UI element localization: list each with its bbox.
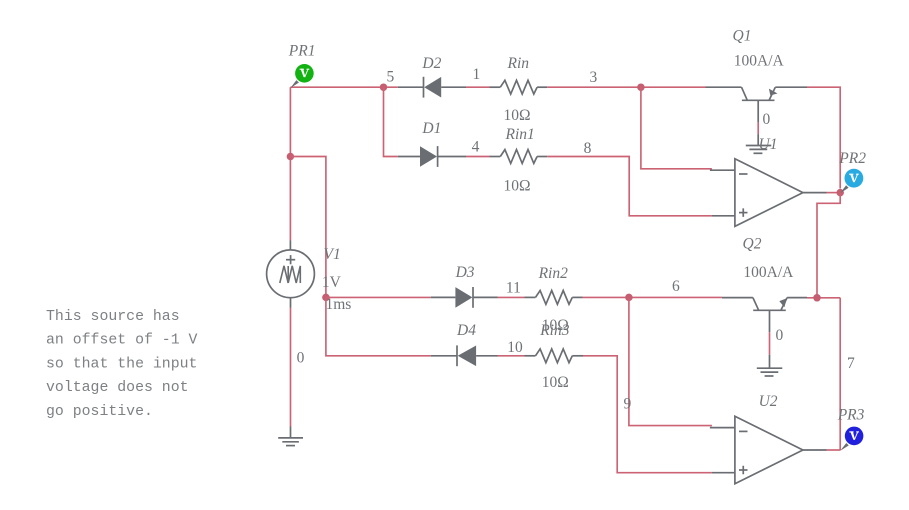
wire node 3	[547, 86, 705, 88]
svg-text:10: 10	[507, 339, 523, 356]
probe PR1	[288, 42, 316, 88]
svg-text:go positive.: go positive.	[46, 404, 153, 420]
op-amp U2	[710, 393, 827, 484]
diode D1	[398, 120, 466, 167]
svg-text:1ms: 1ms	[326, 296, 352, 313]
wire node3 to U1 minus	[641, 87, 712, 169]
svg-text:3: 3	[590, 69, 598, 86]
voltage source V1	[267, 241, 352, 314]
junction at x=290 row B	[287, 153, 295, 161]
wire Q1 collector to PR2 node	[807, 87, 840, 188]
svg-text:11: 11	[506, 280, 521, 297]
wire U2 output	[827, 449, 841, 451]
resistor Rin1	[490, 126, 548, 195]
svg-text:Q1: Q1	[733, 27, 752, 44]
wire node 11	[498, 296, 525, 298]
wire node 4	[466, 156, 490, 158]
junction node 6	[625, 294, 633, 302]
op-amp U1	[710, 136, 827, 226]
wire top rail node 5	[290, 86, 397, 88]
svg-text:9: 9	[624, 396, 632, 413]
resistor Rin	[490, 55, 548, 124]
svg-text:1V: 1V	[322, 274, 342, 291]
svg-text:0: 0	[776, 327, 784, 344]
wire junction to D3	[326, 296, 431, 298]
diode D3	[431, 264, 498, 308]
svg-text:D3: D3	[455, 264, 475, 281]
svg-text:U1: U1	[759, 136, 778, 153]
wire node 1	[466, 86, 490, 88]
svg-text:100A/A: 100A/A	[743, 264, 794, 281]
junction node 3	[637, 83, 645, 91]
annotation text	[46, 309, 198, 420]
ground below Q1	[746, 134, 772, 153]
wire node 7 vertical	[839, 298, 841, 451]
svg-text:10Ω: 10Ω	[504, 107, 531, 124]
svg-text:6: 6	[672, 278, 680, 295]
CCCS Q1	[706, 27, 808, 122]
svg-text:1: 1	[473, 66, 481, 83]
svg-text:so that the input: so that the input	[46, 356, 197, 372]
svg-text:V1: V1	[324, 246, 341, 263]
svg-text:PR3: PR3	[837, 406, 865, 423]
svg-text:4: 4	[472, 139, 480, 156]
svg-text:0: 0	[763, 111, 771, 128]
svg-text:Q2: Q2	[743, 236, 762, 253]
wire node 8 to U1 plus	[547, 157, 712, 216]
wire node 9 to U2 plus	[583, 356, 712, 473]
junction PR2	[836, 189, 844, 197]
svg-text:D2: D2	[421, 55, 441, 72]
wire to D4 row	[326, 297, 431, 355]
wire junction to V1 right vertical	[290, 157, 326, 298]
wire left vertical from PR1 corner to V1	[289, 87, 291, 240]
wire node5 drop to D1 row	[384, 87, 398, 156]
svg-text:U2: U2	[759, 393, 778, 410]
probe PR3	[837, 406, 865, 451]
wire V1 bottom to ground	[290, 308, 292, 427]
svg-text:D1: D1	[421, 120, 441, 137]
svg-text:voltage does not: voltage does not	[46, 380, 189, 396]
svg-text:0: 0	[297, 350, 305, 367]
probe PR2	[838, 150, 866, 193]
diode D4	[431, 322, 498, 366]
wire PR2 node down to Q2 collector node	[817, 193, 840, 298]
junction Q2 collector	[813, 294, 821, 302]
diode D2	[398, 55, 466, 97]
resistor Rin2	[525, 265, 583, 334]
svg-text:8: 8	[584, 140, 592, 157]
svg-text:100A/A: 100A/A	[734, 53, 785, 70]
svg-text:Rin2: Rin2	[538, 265, 569, 282]
CCCS Q2	[722, 236, 807, 333]
wire Q2 collector to node 7	[807, 297, 840, 299]
ground below Q2	[757, 355, 783, 376]
svg-text:an offset of -1 V: an offset of -1 V	[46, 333, 198, 349]
wire U1 output to PR2	[827, 192, 841, 194]
wire node 10	[498, 355, 525, 357]
svg-text:Rin: Rin	[507, 55, 530, 72]
wire Q2 emitter to ground	[769, 332, 771, 355]
svg-text:5: 5	[387, 69, 395, 86]
wire node 6	[583, 296, 722, 298]
svg-text:PR1: PR1	[288, 42, 316, 59]
junction at V1 output	[322, 294, 330, 302]
svg-text:PR2: PR2	[838, 150, 866, 167]
wire node6 to U2 minus	[629, 297, 712, 425]
svg-text:Rin1: Rin1	[505, 126, 535, 143]
wire Q1 emitter to ground	[757, 122, 759, 134]
svg-text:This source has: This source has	[46, 309, 180, 325]
junction node 5	[380, 83, 388, 91]
ground below V1	[278, 427, 303, 446]
svg-text:D4: D4	[456, 322, 476, 339]
svg-text:Rin3: Rin3	[539, 322, 570, 339]
svg-text:10Ω: 10Ω	[542, 374, 569, 391]
svg-text:10Ω: 10Ω	[504, 178, 531, 195]
svg-text:7: 7	[847, 355, 855, 372]
resistor Rin3	[525, 322, 584, 391]
